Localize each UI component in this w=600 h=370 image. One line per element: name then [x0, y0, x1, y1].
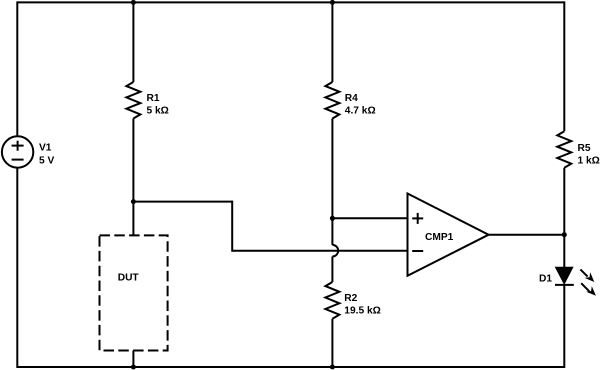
wire top bus to R4 — [331, 2, 333, 82]
node R1 / DUT / inverting branch — [131, 199, 136, 204]
wire R1 to DUT — [132, 119, 134, 236]
svg-text:5 kΩ: 5 kΩ — [147, 106, 169, 117]
wire inverting route to op-amp minus input — [232, 250, 407, 252]
resistor R5 — [557, 131, 571, 168]
wire hop over inverting line — [332, 245, 338, 257]
wire R4 to hop — [331, 119, 333, 245]
svg-text:1 kΩ: 1 kΩ — [578, 156, 600, 167]
label V1 5 V — [39, 143, 54, 167]
node R4 / R2 / non-inverting input — [330, 216, 335, 221]
wire op-amp output — [489, 234, 565, 236]
svg-text:5 V: 5 V — [39, 155, 54, 166]
label R4 4.7 kOhm — [345, 93, 376, 117]
LED D1 — [555, 267, 596, 296]
label R5 1 kOhm — [578, 143, 600, 167]
wire output node to LED — [563, 235, 565, 269]
voltage source V1 — [2, 136, 33, 167]
node top bus / R4 — [330, 0, 335, 5]
svg-text:D1: D1 — [539, 274, 552, 285]
wire top bus to R1 — [132, 2, 134, 82]
svg-text:R4: R4 — [345, 93, 358, 104]
resistor R2 — [325, 282, 339, 319]
wire R5 to output node — [563, 168, 565, 235]
svg-text:R5: R5 — [578, 143, 591, 154]
svg-text:R2: R2 — [344, 293, 357, 304]
resistor R1 — [126, 82, 140, 119]
wire top bus — [17, 1, 564, 3]
wire inverting route horizontal from R1 node — [133, 201, 232, 203]
node top bus / R1 — [131, 0, 136, 5]
svg-text:V1: V1 — [39, 143, 52, 154]
wire LED to bottom bus — [563, 285, 565, 368]
svg-text:CMP1: CMP1 — [425, 232, 454, 243]
LED arrow 1 — [580, 269, 587, 276]
DUT dashed box — [100, 235, 168, 350]
resistor R4 — [325, 82, 339, 119]
wire left top (top bus to V1) — [16, 1, 18, 136]
wire DUT to bottom bus — [132, 351, 134, 368]
wire hop to R2 — [331, 257, 333, 283]
node bottom bus / DUT — [131, 365, 136, 370]
label R1 5 kOhm — [147, 93, 169, 117]
label R2 19.5 kOhm — [344, 293, 381, 317]
svg-text:4.7 kΩ: 4.7 kΩ — [345, 106, 376, 117]
wire left bottom (V1 to bottom bus) — [16, 168, 18, 368]
wire right top (top bus to R5) — [563, 1, 565, 131]
node output / R5 / D1 — [562, 232, 567, 237]
svg-text:19.5 kΩ: 19.5 kΩ — [344, 306, 381, 317]
wire bottom bus — [17, 366, 564, 368]
svg-text:DUT: DUT — [118, 273, 140, 284]
LED arrow 2 — [581, 283, 589, 291]
node bottom bus / R2 — [330, 365, 335, 370]
svg-text:R1: R1 — [147, 93, 160, 104]
wire R2 to bottom bus — [331, 319, 333, 367]
wire inverting route vertical — [231, 201, 233, 252]
wire non-inverting input — [332, 217, 407, 219]
op-amp comparator CMP1 — [408, 194, 489, 276]
